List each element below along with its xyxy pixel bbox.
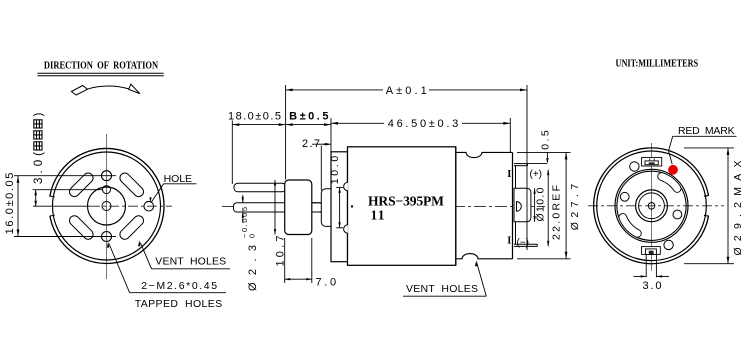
- svg-text:3.0: 3.0: [643, 280, 662, 292]
- svg-text:VENT HOLES: VENT HOLES: [406, 283, 478, 295]
- svg-text:(+): (+): [530, 169, 543, 180]
- svg-text:11: 11: [371, 208, 385, 223]
- svg-text:I: I: [507, 236, 511, 247]
- svg-text:UNIT:MILLIMETERS: UNIT:MILLIMETERS: [616, 58, 699, 69]
- svg-text:RED MARK: RED MARK: [678, 125, 735, 137]
- svg-text:0.5: 0.5: [540, 130, 552, 150]
- svg-text:46.50±0.3: 46.50±0.3: [388, 118, 459, 130]
- svg-text:7.0: 7.0: [316, 277, 337, 289]
- svg-text:B±0.5: B±0.5: [289, 111, 328, 123]
- svg-text:HRS−395PM: HRS−395PM: [368, 194, 444, 209]
- svg-text:): ): [33, 113, 45, 117]
- svg-text:VENT HOLES: VENT HOLES: [155, 255, 226, 267]
- svg-text:TAPPED HOLES: TAPPED HOLES: [135, 298, 223, 310]
- svg-text:18.0±0.5: 18.0±0.5: [228, 111, 281, 123]
- svg-text:2−M2.6*0.45: 2−M2.6*0.45: [141, 280, 217, 292]
- svg-text:Ø29.2MAX: Ø29.2MAX: [732, 161, 744, 256]
- svg-text:10.0: 10.0: [329, 156, 341, 185]
- svg-text:16.0±0.05: 16.0±0.05: [4, 173, 16, 235]
- svg-text:0: 0: [248, 234, 257, 238]
- svg-text:DIRECTION OF ROTATION: DIRECTION OF ROTATION: [44, 61, 159, 72]
- svg-text:A±0.1: A±0.1: [386, 85, 427, 97]
- svg-text:Ø10.0: Ø10.0: [535, 187, 547, 221]
- svg-text:I: I: [507, 169, 511, 180]
